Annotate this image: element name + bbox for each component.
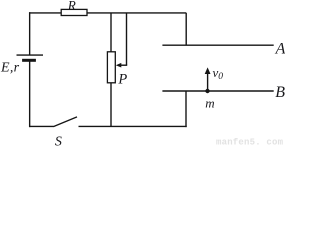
potentiometer P	[107, 52, 127, 88]
svg-text:B: B	[275, 84, 285, 101]
plate B	[162, 84, 285, 101]
wiper arrow into P	[116, 13, 127, 68]
wire potentiometer bottom lead	[110, 83, 112, 127]
wire bottom right segment	[79, 125, 187, 127]
switch S	[53, 117, 77, 149]
wire bottom left segment	[29, 125, 54, 127]
svg-text:A: A	[275, 40, 285, 57]
svg-text:v0: v0	[213, 65, 224, 82]
wire top-right horizontal	[87, 12, 186, 14]
wire top-left horizontal	[29, 12, 61, 14]
wire right vertical to plate A	[185, 13, 187, 45]
wire plate B down to bottom wire	[185, 91, 187, 127]
svg-text:E,r: E,r	[0, 61, 20, 76]
plate A	[162, 40, 285, 57]
node m dot	[205, 89, 214, 111]
svg-text:m: m	[205, 96, 214, 111]
svg-text:S: S	[55, 134, 62, 147]
svg-text:manfen5. com: manfen5. com	[216, 138, 284, 148]
svg-text:P: P	[117, 71, 127, 87]
wire left vertical lower	[29, 61, 31, 127]
wire potentiometer top lead	[110, 13, 112, 52]
battery E,r	[0, 55, 43, 76]
velocity arrow v0	[205, 65, 224, 90]
svg-text:R: R	[67, 0, 76, 13]
wire left vertical upper	[29, 12, 31, 55]
resistor R	[61, 0, 87, 16]
